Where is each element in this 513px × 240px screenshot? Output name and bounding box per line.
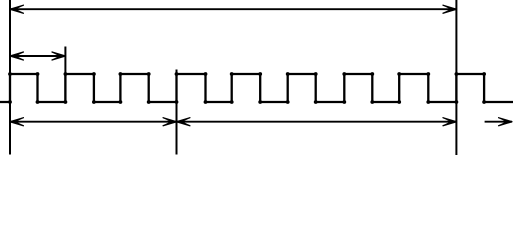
extension line middle (x=176.5) — [176, 70, 178, 155]
extension line period mark (x=65.5) — [64, 47, 66, 102]
square wave — [0, 74, 513, 102]
continuation arrow bottom right — [485, 118, 512, 126]
extension line left (x=10) — [9, 0, 11, 155]
bottom-right dimension line — [177, 118, 457, 126]
bottom-left dimension line — [10, 118, 177, 126]
waveform corner junction dots — [8, 72, 486, 104]
top dimension line (full span) — [10, 5, 456, 13]
extension line right (x=456.5) — [455, 0, 457, 155]
period dimension line (one period) — [10, 52, 65, 60]
